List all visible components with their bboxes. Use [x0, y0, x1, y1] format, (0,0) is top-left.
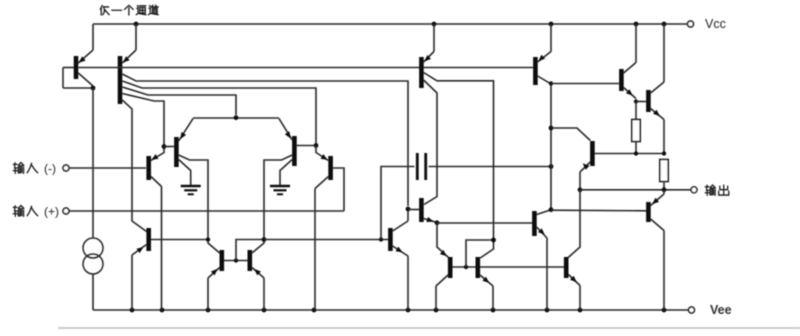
- wire: Q7 base to mirror node: [151, 239, 208, 241]
- wire: first-stage output to Q10 base: [264, 239, 389, 241]
- label: 仅一个通道 (only one channel): [100, 5, 109, 15]
- wire: Q15 emitter down to R2 node: [663, 120, 665, 154]
- wire: input-stage emitter bridge: [193, 117, 279, 119]
- transistor Q10 (first driver NPN): [388, 228, 393, 251]
- junction on Vee rail x=580: [578, 308, 583, 313]
- terminal Vcc: [688, 21, 694, 27]
- wire: Q13 collector down-line: [538, 76, 551, 210]
- terminal Vee: [689, 307, 695, 313]
- transistor Q7 (bias PNP at lower-left): [146, 228, 151, 251]
- wire: Q6 collector down to Vee: [314, 189, 316, 311]
- wire: Q4 base: [164, 146, 174, 148]
- svg-text:(-): (-): [44, 162, 56, 176]
- wire: to Q11 base: [408, 209, 419, 211]
- node: Q15 collector on Vcc rail: [662, 22, 667, 27]
- node: Q1 collector/base junction: [91, 86, 96, 91]
- wire: Q21 collector to Vee: [663, 231, 665, 311]
- transistor Q5 (inner-right Darlington PNP): [292, 136, 297, 166]
- junction on Vee rail x=436: [434, 308, 439, 313]
- node: Q16 collector tap: [549, 126, 554, 131]
- capacitor C1 (compensation): [416, 153, 419, 180]
- wire: Q2 collector fan line 5 to x=164: [122, 94, 164, 146]
- wire: base tie extension to Q20 base: [480, 266, 564, 268]
- transistor Q1 (diode-connected PNP, top-left mirror): [74, 56, 79, 79]
- wire: Q16 collector link: [551, 128, 590, 141]
- wire: Q10 collector riser: [407, 209, 409, 221]
- transistor Q18 (PNP mirror left): [448, 257, 453, 278]
- transistor Q19 (PNP mirror right, diode side): [475, 257, 480, 278]
- junction on Vee rail x=493: [491, 308, 496, 313]
- wire: Q15 collector to Vcc: [663, 24, 665, 82]
- wire: Q12 collector 1 to Q11 collector: [424, 80, 437, 205]
- wire: Q5 second collector to mirror: [264, 155, 292, 244]
- wire: R1 bottom lead: [635, 142, 637, 154]
- node: Q13-collector / Q17-collector / Q21-base: [549, 207, 554, 212]
- node: Q12 emitter on Vcc rail: [432, 22, 437, 27]
- svg-text:(+): (+): [44, 205, 59, 219]
- wire: Q2 collector fan line 6 down to Q7 collector: [122, 100, 146, 232]
- node: Q14 collector on Vcc rail: [634, 22, 639, 27]
- ground (left): [181, 185, 201, 187]
- wire: Q20 collector riser: [568, 190, 580, 258]
- transistor Q12 (dual-collector PNP current source): [419, 57, 424, 88]
- node: R1 bottom junction: [634, 151, 638, 155]
- terminal: output: [691, 187, 697, 193]
- wire: Vcc top rail: [93, 23, 688, 25]
- resistor R2: [660, 160, 668, 182]
- wire: Q19 lower lead to Vee: [492, 286, 494, 310]
- node: Q13 emitter on Vcc rail: [549, 22, 554, 27]
- wire: Q9 emitter to Vee: [263, 278, 265, 310]
- node: base tie centre: [234, 258, 238, 262]
- transistor Q14 (output Darlington NPN): [619, 69, 624, 91]
- junction on Vee rail x=162: [160, 308, 165, 313]
- wire: Q18/Q19 base tie: [452, 266, 475, 268]
- transistor Q13 (PNP current source/driver): [533, 57, 538, 85]
- transistor Q8 (mirror left): [220, 250, 225, 271]
- wire: Q4 collector to ground: [179, 160, 191, 186]
- svg-text:Vcc: Vcc: [705, 17, 726, 31]
- wire: output net: [580, 189, 691, 191]
- wire: non-inverting input: [69, 210, 344, 212]
- wire: down to R1: [635, 102, 637, 120]
- junction on Vee rail x=314: [312, 308, 317, 313]
- label: 输入 (+): [13, 205, 24, 216]
- node: compensation tap on output wire: [379, 237, 383, 241]
- wire: Q18 lower lead to Vee: [435, 286, 437, 310]
- transistor Q21 (output PNP): [646, 202, 651, 222]
- current source I1: [83, 238, 103, 258]
- node: tie centre: [464, 265, 468, 269]
- wire: Q6 base riser: [333, 168, 344, 211]
- wire: Q10 emitter to Vee: [407, 256, 409, 310]
- node: Q4 base / fan-5 junction: [162, 144, 167, 149]
- transistor Q11 (second-stage NPN): [419, 198, 424, 222]
- node: Q8 collector/base-wire junction: [206, 237, 210, 241]
- node: R2 top junction: [662, 151, 666, 155]
- junction on Vee rail x=132: [130, 308, 135, 313]
- wire: current source to Vee corner: [92, 274, 94, 310]
- wire: to Q14 base: [551, 83, 619, 85]
- wire: Q21 emitter to output node: [663, 190, 665, 194]
- transistor Q6 (non-inverting-input PNP): [328, 156, 333, 180]
- transistor Q3 (inverting-input PNP): [146, 156, 151, 180]
- wire: Q4 second collector to mirror: [179, 155, 208, 244]
- wire: Q5 base: [297, 145, 314, 147]
- wire: Q2 collector fan line 3 to x=316: [122, 81, 316, 145]
- wire: Q11 emitter node to Q17 base: [437, 222, 533, 224]
- wire: Q20 emitter to Vee: [579, 286, 581, 311]
- wire: inverting input to Q3 base: [69, 167, 146, 169]
- transistor Q17 (NPN): [532, 211, 537, 236]
- wire: Q7 emitter to Vee: [131, 255, 133, 310]
- wire: Q5 collector to ground: [280, 160, 292, 186]
- transistor Q16 (PNP sense): [590, 141, 595, 166]
- svg-text:Vee: Vee: [710, 303, 732, 317]
- wire: Q11 emitter node down to Q18: [437, 223, 449, 258]
- wire: diode connection to collector line: [466, 240, 492, 267]
- node: on Q12 second collector line: [491, 238, 496, 243]
- node: Q5 base / fan-3 junction: [314, 143, 319, 148]
- wire: cap left lead: [381, 167, 415, 240]
- node: Q13 collector / Q14 base tap: [549, 81, 553, 85]
- node: Q10 collector / Q11 base / fan-2: [406, 207, 411, 212]
- transistor Q9 (mirror right, diode-connected): [248, 250, 253, 271]
- terminal: inverting input: [63, 165, 69, 171]
- junction on Vee rail x=408: [406, 308, 411, 313]
- transistor Q20 (NPN output clamp): [564, 257, 569, 278]
- wire: Q16 base / R1 / R2 node: [595, 153, 664, 155]
- ground (right): [270, 185, 290, 187]
- node: Q14 emitter / Q15 base / R1: [634, 99, 638, 103]
- wire: R2 bottom lead: [663, 182, 665, 191]
- wire: Q1 base wrap-around: [63, 67, 74, 69]
- wire: cap right lead: [429, 166, 552, 168]
- wire: Q8 emitter to Vee: [207, 278, 209, 310]
- wire: Q16 emitter to output node: [579, 172, 581, 190]
- wire: Q3 collector down to Vee: [161, 187, 163, 311]
- transistor Q15 (output NPN): [646, 90, 651, 112]
- wire: to Q15 base: [636, 101, 646, 103]
- node: Q11 emitter node: [435, 220, 440, 225]
- transistor Q4 (inner-left Darlington PNP): [174, 137, 179, 167]
- wire: to Q21 base: [551, 209, 647, 212]
- wire: Q14 collector to Vcc: [635, 24, 637, 63]
- wire: bias line from Q1 down to current source: [92, 88, 94, 238]
- node: bridge / fan line 4 junction: [234, 115, 239, 120]
- wire: Q8/Q9 base tie: [224, 260, 248, 262]
- wire: Q12 collector 2 to Q18/Q19 mirror: [424, 73, 494, 259]
- junction on Vee rail x=664: [662, 308, 667, 313]
- junction on Vee rail x=547: [545, 308, 550, 313]
- wire: shared base line Q1-Q2-Q12-Q13: [78, 67, 533, 69]
- resistor R1: [632, 120, 640, 142]
- wire: Q2 collector fan line 2 to x=408: [122, 74, 408, 206]
- label: 输入 (-): [13, 162, 24, 173]
- node: T2 emitter on Vcc rail: [134, 22, 139, 27]
- wire: Q17 emitter to Vee: [546, 238, 548, 310]
- wire: Vee bottom rail: [93, 309, 689, 311]
- junction on Vee rail x=264: [262, 308, 267, 313]
- transistor Q2 (multi-collector bias PNP): [118, 56, 123, 104]
- junction on Vee rail x=208: [206, 308, 211, 313]
- node: output node at Q16 emitter: [578, 187, 583, 192]
- node: R2 junction on output: [662, 187, 667, 192]
- node: first-stage output node: [262, 237, 267, 242]
- scan artifact line at bottom: [58, 327, 800, 329]
- node: cap to Q13 collector line: [549, 164, 554, 169]
- terminal: non-inverting input: [63, 208, 69, 214]
- wire: Q2 collector fan line 4 to x=236: [122, 87, 236, 115]
- label: 输出 (output): [705, 185, 715, 195]
- wire: mirror diode connection up to node: [236, 240, 262, 261]
